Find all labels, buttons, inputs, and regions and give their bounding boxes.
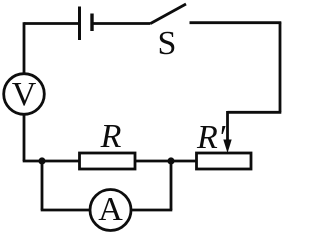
svg-text:R′: R′	[196, 119, 226, 156]
battery GB long plate (positive)	[78, 7, 81, 41]
wire: switch to top-right corner	[190, 21, 282, 24]
switch S blade (open, diagonal)	[151, 4, 187, 24]
rheostat wiper arrow stem	[226, 111, 229, 143]
junction node right	[167, 157, 174, 164]
wire: bottom-left corner to resistor R	[23, 160, 80, 163]
wire: ammeter branch up to right junction	[170, 161, 173, 210]
wire: top-left horizontal (left corner to battery)	[24, 22, 80, 25]
svg-text:R: R	[100, 118, 122, 155]
wire: voltmeter to bottom-left corner	[23, 114, 26, 161]
wire: right vertical down	[279, 22, 282, 112]
battery GB short plate (negative)	[90, 14, 93, 32]
wire: horizontal toward rheostat wiper	[228, 111, 282, 114]
voltmeter V	[4, 74, 45, 115]
resistor R body	[80, 153, 136, 169]
wire: left junction down to ammeter branch	[41, 161, 44, 210]
svg-text:S: S	[158, 25, 177, 62]
rheostat wiper arrowhead	[223, 140, 231, 154]
wire: battery to switch	[92, 22, 151, 25]
wire: resistor R to rheostat	[135, 160, 197, 163]
wire: ammeter branch left horizontal	[41, 209, 90, 212]
wire: left vertical (top corner down to voltmeter)	[23, 22, 26, 73]
wire: ammeter branch right horizontal	[131, 209, 172, 212]
svg-text:V: V	[12, 76, 37, 113]
svg-text:A: A	[98, 191, 123, 228]
rheostat R' body	[197, 153, 252, 169]
junction node left	[38, 157, 45, 164]
ammeter A	[90, 190, 131, 231]
